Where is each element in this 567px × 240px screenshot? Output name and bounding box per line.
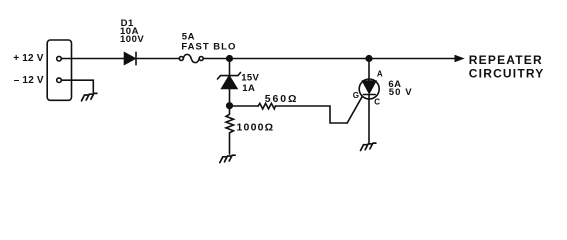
svg-text:15V: 15V bbox=[241, 73, 259, 84]
svg-text:G: G bbox=[353, 91, 359, 100]
svg-text:A: A bbox=[377, 70, 383, 79]
svg-text:REPEATER: REPEATER bbox=[469, 53, 543, 67]
svg-text:50 V: 50 V bbox=[389, 87, 413, 98]
svg-text:C: C bbox=[374, 98, 380, 107]
svg-text:560Ω: 560Ω bbox=[265, 93, 299, 105]
svg-text:FAST BLO: FAST BLO bbox=[181, 42, 236, 53]
svg-text:1A: 1A bbox=[242, 83, 255, 94]
svg-text:+ 12 V: + 12 V bbox=[13, 53, 44, 64]
svg-text:1000Ω: 1000Ω bbox=[237, 122, 275, 134]
svg-text:CIRCUITRY: CIRCUITRY bbox=[469, 67, 545, 81]
svg-text:– 12 V: – 12 V bbox=[14, 75, 44, 86]
svg-text:100V: 100V bbox=[120, 34, 144, 45]
